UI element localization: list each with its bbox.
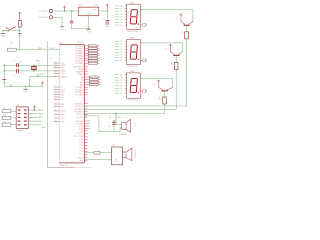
IC2 right pin stubs <box>84 46 87 161</box>
wire X1 to regulator input <box>53 10 79 12</box>
resistor R1 <box>7 42 16 51</box>
speaker LS1 <box>118 117 135 136</box>
junction RST wire <box>19 49 20 50</box>
display LED1 segment pin stubs <box>115 5 127 27</box>
svg-text:A11: A11 <box>80 83 83 86</box>
svg-text:P3.0/RXD: P3.0/RXD <box>75 103 84 105</box>
power VCC symbol (reset pull-up) <box>18 12 21 20</box>
svg-text:LED2: LED2 <box>130 38 135 40</box>
svg-text:12: 12 <box>54 62 56 64</box>
junction reset rail left <box>2 30 3 31</box>
svg-text:GND: GND <box>105 26 110 28</box>
display LED1 second common pin <box>140 24 146 27</box>
svg-text:XTAL2: XTAL2 <box>78 73 84 76</box>
svg-text:GND: GND <box>23 91 28 93</box>
junction gnd rail a <box>10 86 11 87</box>
wire X1 pin2 down <box>53 17 62 26</box>
svg-text:12: 12 <box>54 121 56 123</box>
power VCC JP1 <box>33 106 36 110</box>
wire Q5 base to IC2 <box>84 39 186 106</box>
svg-text:12: 12 <box>54 91 56 93</box>
svg-text:MOSI: MOSI <box>38 110 43 112</box>
svg-text:12: 12 <box>54 88 56 90</box>
svg-text:CF: CF <box>120 19 122 21</box>
wire IC2 to speaker2 B <box>84 159 111 161</box>
svg-text:LED3: LED3 <box>130 71 135 73</box>
svg-text:P1.6: P1.6 <box>79 151 83 153</box>
svg-text:MISO: MISO <box>60 114 65 116</box>
ground X1 pin2 <box>60 27 65 31</box>
svg-text:GND: GND <box>1 35 6 37</box>
svg-text:12: 12 <box>54 103 56 105</box>
power VCC EA tie <box>41 82 44 87</box>
transistor Q6 <box>165 44 183 56</box>
junction crystal top <box>33 65 34 66</box>
voltage regulator IC1 7805 <box>78 5 98 16</box>
svg-text:P1.5: P1.5 <box>79 148 83 150</box>
wire LED3 common to Q7 collector <box>140 78 172 87</box>
svg-text:Q5: Q5 <box>175 18 177 20</box>
wire crystal ground rail vertical <box>3 65 5 86</box>
svg-text:P1.4: P1.4 <box>79 145 83 147</box>
svg-text:S1: S1 <box>9 24 11 26</box>
svg-text:11.0592M: 11.0592M <box>38 73 46 75</box>
junction VCC output <box>107 10 108 11</box>
7-segment display LED3 <box>127 71 141 102</box>
svg-text:AT89C5: AT89C5 <box>77 41 84 44</box>
svg-text:7805: 7805 <box>94 5 98 7</box>
junction JP1 vcc <box>34 109 35 110</box>
wire IC2 to speaker2 A <box>84 152 111 154</box>
svg-text:Q6: Q6 <box>165 48 167 50</box>
speaker LS2 box <box>112 147 123 165</box>
svg-text:Q1: Q1 <box>38 63 40 65</box>
svg-text:R14: R14 <box>3 122 6 124</box>
IC2 left pin names <box>60 63 68 124</box>
svg-text:10k: 10k <box>22 23 24 26</box>
pin header JP1 pins <box>18 109 27 125</box>
svg-text:GND: GND <box>86 31 91 33</box>
svg-text:P3.4/T0: P3.4/T0 <box>77 114 84 116</box>
capacitor C3 output <box>103 11 110 24</box>
wire long red net vertical <box>38 41 47 167</box>
svg-text:GND: GND <box>18 35 23 37</box>
junction rail top <box>4 65 5 66</box>
svg-text:P1.2: P1.2 <box>79 139 83 141</box>
wire Q6 base to IC2 <box>84 69 176 109</box>
resistor network P2 resistors <box>87 76 101 86</box>
svg-text:P3.1/TXD: P3.1/TXD <box>75 106 84 108</box>
capacitor C6 (speaker coupling) <box>108 114 116 131</box>
ground regulator <box>86 29 91 33</box>
svg-text:R13: R13 <box>3 115 6 117</box>
display LED3 common anode pin <box>140 77 142 79</box>
svg-text:P1.0/T2: P1.0/T2 <box>77 133 84 135</box>
IC2 left pin stubs <box>54 62 59 123</box>
svg-text:LS1: LS1 <box>133 122 135 125</box>
microcontroller IC2 body <box>59 41 84 167</box>
resistor R9 <box>180 32 188 39</box>
junction rail mid <box>4 70 5 71</box>
svg-text:C1: C1 <box>13 61 15 63</box>
svg-text:VCC: VCC <box>60 73 65 75</box>
7-segment display LED1 <box>127 2 141 33</box>
wire speaker1 feed B <box>84 116 120 132</box>
capacitor C2 xtal <box>13 69 19 77</box>
svg-text:MISO: MISO <box>38 114 43 116</box>
svg-text:CF: CF <box>120 55 122 57</box>
wire LED1 common to Q5 collector <box>140 10 193 22</box>
switch S1 (reset) <box>6 24 16 31</box>
svg-text:12: 12 <box>54 96 56 98</box>
ground under reset node <box>18 31 23 38</box>
resistors R12 R13 R14 (ISP) <box>2 108 16 126</box>
svg-text:P2.6/A14: P2.6/A14 <box>75 91 83 94</box>
svg-text:GND: GND <box>2 82 7 84</box>
svg-text:30p: 30p <box>20 61 23 63</box>
ground mid rail <box>23 86 28 93</box>
junction regulator gnd <box>88 28 89 29</box>
svg-text:HDSP-H103: HDSP-H103 <box>127 66 137 68</box>
svg-text:POWER2-2: POWER2-2 <box>39 17 49 19</box>
junction input wire B <box>71 10 72 11</box>
svg-text:XTAL1: XTAL1 <box>60 64 66 67</box>
resistor network segment resistors R3-R8 (P0) <box>87 45 100 64</box>
resistor R11 <box>158 97 166 104</box>
wire reset node to RST net <box>19 31 21 50</box>
svg-text:R12: R12 <box>3 108 6 110</box>
wire XTAL2 net <box>4 71 59 77</box>
svg-text:12: 12 <box>54 113 56 115</box>
transistor Q7 <box>153 80 172 91</box>
resistor R10 <box>170 62 178 69</box>
junction speaker1 cap top <box>0 0 1 1</box>
svg-text:12: 12 <box>54 76 56 78</box>
svg-text:12: 12 <box>54 70 56 72</box>
resistor R2 (reset pull-up) <box>18 21 24 27</box>
svg-text:12: 12 <box>54 72 56 74</box>
svg-text:IC2: IC2 <box>59 43 62 45</box>
svg-text:P0.7/AD7: P0.7/AD7 <box>75 62 83 65</box>
display LED2 second common pin <box>140 59 146 62</box>
svg-text:P1.3: P1.3 <box>79 142 83 144</box>
power VCC regulator output <box>106 4 109 11</box>
IC2 right pin names <box>74 45 85 163</box>
junction gnd rail b <box>25 86 26 87</box>
svg-text:P2.5/A13: P2.5/A13 <box>75 89 83 92</box>
svg-text:EA/VPP: EA/VPP <box>60 76 68 79</box>
svg-text:R11: R11 <box>158 97 160 100</box>
svg-text:MOSI: MOSI <box>60 111 65 113</box>
wire regulator gnd stem <box>88 16 90 29</box>
wire speaker1 feed A <box>116 113 117 121</box>
speaker LS2 cone <box>112 145 137 161</box>
svg-text:SP1: SP1 <box>118 117 121 119</box>
wire speaker1 bottom pin <box>120 128 122 132</box>
svg-text:P1.7: P1.7 <box>79 154 83 156</box>
svg-text:P1.7: P1.7 <box>60 68 64 70</box>
junction cap top node <box>113 120 114 121</box>
svg-text:12: 12 <box>54 67 56 69</box>
display LED2 segment pin stubs <box>115 40 127 62</box>
resistor R15 inline <box>94 152 100 155</box>
crystal Q1 <box>31 63 46 75</box>
svg-text:P1.1/T2EX: P1.1/T2EX <box>74 136 84 138</box>
svg-text:A8: A8 <box>81 76 83 79</box>
svg-text:HDSP-H103: HDSP-H103 <box>127 31 137 33</box>
svg-text:POWER2-1: POWER2-1 <box>39 11 49 13</box>
svg-text:A9: A9 <box>81 78 83 81</box>
svg-text:12: 12 <box>54 110 56 112</box>
svg-text:1k: 1k <box>172 64 174 66</box>
svg-text:JP1: JP1 <box>16 105 19 107</box>
wire LED2 common to Q6 collector <box>140 43 182 52</box>
svg-text:GND: GND <box>60 122 65 124</box>
svg-text:HDSP-H103: HDSP-H103 <box>127 100 137 102</box>
wire JP1 gnd stub <box>28 125 46 129</box>
display LED3 segment pin stubs <box>115 73 127 95</box>
wire XTAL1 net <box>4 60 59 65</box>
ground crystal rail <box>2 80 7 84</box>
svg-text:P3.5/T1: P3.5/T1 <box>77 117 84 119</box>
wire Q6 base <box>175 56 177 62</box>
svg-text:CF: CF <box>120 88 122 90</box>
pin header JP1 body <box>16 105 28 132</box>
connector X1 pin 2 <box>39 16 53 19</box>
svg-text:IC1: IC1 <box>78 5 81 7</box>
svg-text:12: 12 <box>54 106 56 108</box>
junction reset rail right <box>19 30 20 31</box>
svg-text:12: 12 <box>54 64 56 66</box>
display LED3 second common pin <box>140 90 146 93</box>
svg-text:P3.2/INT0: P3.2/INT0 <box>75 109 84 111</box>
svg-text:P2.7/A15: P2.7/A15 <box>75 94 83 97</box>
7-segment display LED2 <box>127 38 141 69</box>
capacitor C4 input <box>70 11 74 29</box>
svg-text:12: 12 <box>54 93 56 95</box>
svg-text:C3: C3 <box>103 19 105 21</box>
junction input wire A <box>64 10 65 11</box>
wire R2 to reset node <box>19 27 21 31</box>
svg-text:GND: GND <box>60 29 65 31</box>
svg-text:RESET: RESET <box>49 48 56 50</box>
svg-text:BUZ: BUZ <box>116 159 118 162</box>
svg-text:P3.3/INT1: P3.3/INT1 <box>75 112 84 114</box>
ground C3 <box>105 24 110 28</box>
svg-text:12: 12 <box>54 86 56 88</box>
svg-text:AT89C52: AT89C52 <box>59 164 68 167</box>
wire EA pin net <box>30 76 60 78</box>
wire EA drop <box>29 77 31 87</box>
svg-text:R10: R10 <box>170 62 172 65</box>
wire R1 to IC2 RST pin <box>16 48 59 60</box>
transistor Q5 <box>175 14 193 26</box>
svg-text:GND: GND <box>42 127 47 129</box>
svg-text:10u: 10u <box>108 126 111 128</box>
ground left of switch <box>1 31 6 38</box>
wire Q5 base <box>186 26 188 32</box>
svg-text:P2.4/A12: P2.4/A12 <box>75 86 83 89</box>
capacitor C1 xtal <box>13 61 23 67</box>
svg-text:1k: 1k <box>161 98 163 100</box>
junction gnd rail c <box>29 86 30 87</box>
wire cap to regulator gnd <box>72 28 89 30</box>
junction crystal bottom <box>33 70 34 71</box>
display LED1 common anode pin <box>140 9 142 11</box>
wire Q7 base <box>164 91 166 97</box>
svg-text:AVRISP: AVRISP <box>17 129 24 132</box>
wire reset rail <box>3 30 20 32</box>
wire stubs P1 rows <box>87 121 90 128</box>
svg-text:SPEAKER: SPEAKER <box>119 133 128 136</box>
supply arrow raw input <box>63 6 66 11</box>
svg-text:SPEAKER: SPEAKER <box>134 150 137 159</box>
svg-text:LED1: LED1 <box>130 2 135 4</box>
svg-text:1k: 1k <box>183 33 185 35</box>
svg-text:T1: T1 <box>60 99 62 101</box>
svg-text:A10: A10 <box>80 81 83 84</box>
display LED2 common anode pin <box>140 42 142 44</box>
svg-text:C6: C6 <box>109 117 111 119</box>
svg-text:C2: C2 <box>13 74 15 76</box>
wire long red net bottom <box>47 166 92 168</box>
wire regulator output <box>99 10 108 12</box>
svg-text:R9: R9 <box>180 32 182 34</box>
wire speaker1 to cap <box>116 114 122 125</box>
svg-text:12: 12 <box>54 98 56 100</box>
svg-text:P1.0: P1.0 <box>50 58 53 60</box>
svg-text:GND: GND <box>86 14 91 16</box>
wire JP1 to ISP net labels <box>28 110 43 123</box>
svg-text:Q7: Q7 <box>153 84 155 86</box>
svg-text:LS2: LS2 <box>112 145 115 147</box>
svg-text:12: 12 <box>54 117 56 119</box>
connector X1 pin 1 <box>39 9 53 12</box>
wire ground rail horizontal <box>4 85 43 87</box>
wire Q7 base to IC2 <box>84 104 164 114</box>
